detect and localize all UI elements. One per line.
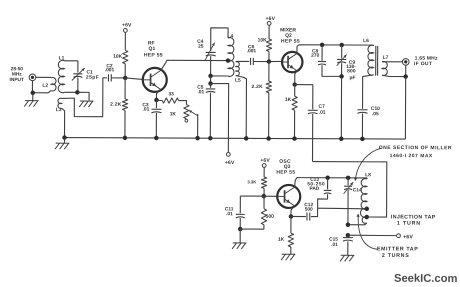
wire C11 node ground stub bbox=[239, 229, 241, 243]
coil L5 bbox=[236, 62, 240, 76]
label 33 bbox=[168, 91, 174, 97]
wire L1 top to C1 bbox=[65, 60, 78, 62]
wire ground bus bbox=[65, 138, 406, 139]
label C14 bbox=[353, 187, 362, 193]
node +6V tank junction bbox=[346, 233, 351, 238]
svg-text:2 TURNS: 2 TURNS bbox=[382, 253, 410, 259]
svg-text:L5: L5 bbox=[235, 78, 241, 84]
power +6V terminal (mixer) bbox=[266, 16, 276, 25]
wire +6V node to C5 bbox=[210, 84, 212, 88]
wire emitter to C12 bbox=[291, 215, 306, 217]
leader arc to emitter tap bbox=[356, 214, 377, 250]
wire C11 top lead bbox=[239, 196, 241, 213]
wire C7 top lead bbox=[312, 85, 314, 110]
wire pot wiper to ground bus bbox=[197, 114, 199, 138]
svg-text:.01: .01 bbox=[319, 110, 326, 116]
label 10K (mixer) bbox=[258, 38, 267, 44]
svg-text:+6V: +6V bbox=[225, 160, 235, 166]
svg-text:HEP 55: HEP 55 bbox=[144, 52, 163, 58]
wire C3 to ground bus bbox=[155, 113, 157, 138]
wire +6V to 10K (mixer) bbox=[268, 25, 270, 38]
wire IF return down to ground bus bbox=[404, 77, 406, 139]
svg-text:HEP 55: HEP 55 bbox=[276, 170, 295, 176]
label 1K (mixer) bbox=[285, 97, 292, 103]
wire Q2 emitter down bbox=[295, 70, 297, 84]
wire base node to 500 bbox=[263, 196, 265, 209]
capacitor C2 .001 bbox=[108, 74, 111, 81]
wire jack down to ground node bbox=[31, 81, 33, 93]
wire 2.2K to ground bus (mixer) bbox=[268, 93, 270, 139]
IF output jack bbox=[402, 59, 409, 66]
svg-text:IF OUT: IF OUT bbox=[414, 61, 432, 67]
label 1K gain pot bbox=[170, 111, 177, 117]
capacitor C3 .01 bbox=[151, 109, 161, 113]
label L1 bbox=[59, 55, 65, 61]
wire bus ground stub bbox=[63, 138, 65, 143]
wire Q1 emitter down bbox=[156, 89, 160, 100]
transistor Q2 bbox=[282, 52, 302, 72]
label C8 bbox=[311, 49, 319, 59]
wire L5 top to C6 bbox=[236, 60, 250, 63]
resistor 1K (mixer emitter) bbox=[292, 96, 297, 110]
wire +6V tank line bbox=[348, 234, 396, 236]
svg-text:2.2K: 2.2K bbox=[110, 102, 122, 108]
coil L7 bbox=[382, 61, 387, 75]
wire C4 bottom lead bbox=[210, 56, 212, 76]
wire base node to C11 corner bbox=[240, 195, 263, 197]
node bus pot bbox=[195, 136, 200, 141]
svg-text:.01: .01 bbox=[331, 242, 338, 248]
capacitor C5 .01 bbox=[206, 89, 216, 93]
svg-text:1 TURN: 1 TURN bbox=[397, 221, 421, 227]
svg-text:L8: L8 bbox=[365, 172, 371, 178]
node L8 injection tap bbox=[365, 215, 370, 220]
svg-text:800: 800 bbox=[347, 68, 356, 74]
wire C11 node to 500 bbox=[240, 228, 264, 230]
wire L3 top lead loop to C2 bbox=[62, 78, 107, 117]
wire tank node to +6V node bbox=[210, 76, 212, 84]
ground osc-emitter bbox=[281, 254, 295, 260]
coil L2 bbox=[51, 77, 56, 90]
svg-text:270: 270 bbox=[311, 53, 319, 59]
node: 28-50 MHz input label bbox=[10, 66, 25, 83]
wire base node to Q2 bbox=[269, 60, 282, 62]
svg-text:Q1: Q1 bbox=[149, 46, 156, 52]
coil L8 (tapped) bbox=[360, 179, 367, 224]
wire 33 to pot top bbox=[179, 101, 187, 105]
svg-text:MHz: MHz bbox=[12, 71, 22, 77]
label L5 bbox=[235, 78, 241, 84]
label C7 bbox=[319, 104, 326, 116]
wire Q2 collector to L6 bbox=[304, 44, 373, 46]
node Q3 emitter junction bbox=[289, 214, 294, 219]
wire L8 top corner bbox=[366, 178, 368, 179]
capacitor C1 25pF (variable) bbox=[72, 68, 85, 81]
svg-text:33: 33 bbox=[168, 91, 174, 97]
wire 10K to base node bbox=[124, 64, 126, 78]
wire jack to L2 bbox=[36, 76, 51, 78]
node C9 top junction bbox=[339, 43, 344, 48]
node L8 bottom junction bbox=[346, 222, 351, 227]
wire C14 bottom lead bbox=[347, 190, 349, 225]
node Q2 emitter junction bbox=[292, 82, 297, 87]
label C13 50-250 PAD bbox=[307, 177, 325, 192]
label C2 bbox=[105, 63, 115, 73]
coil L1 bbox=[58, 60, 64, 92]
ground L1 tank bbox=[79, 101, 93, 107]
resistor 1K (osc emitter) bbox=[288, 233, 293, 247]
label L8 bbox=[365, 172, 371, 178]
wire Q2 collector riser bbox=[297, 45, 304, 54]
wire C15 ground stub bbox=[347, 241, 349, 255]
capacitor C12 500 bbox=[307, 213, 310, 221]
capacitor C7 .01 (injection coupling) bbox=[308, 110, 318, 114]
node junction below jack bbox=[31, 91, 36, 96]
svg-text:+6V: +6V bbox=[260, 158, 270, 164]
wire C5 to ground bus bbox=[209, 93, 211, 139]
node C8 top junction bbox=[320, 43, 325, 48]
label C12 bbox=[304, 202, 313, 213]
svg-text:SeekIC.com: SeekIC.com bbox=[394, 273, 458, 285]
transformer core L6/L7 bbox=[376, 46, 378, 76]
wire emitter to 1K (mixer) bbox=[294, 85, 296, 97]
wire C9 bottom lead bbox=[341, 63, 343, 76]
wire Q1 collector riser bbox=[161, 60, 171, 70]
svg-text:.01: .01 bbox=[226, 211, 233, 217]
svg-text:10K: 10K bbox=[258, 38, 267, 44]
node C13 top junction bbox=[325, 175, 330, 180]
node C11 bottom junction bbox=[238, 227, 243, 232]
svg-text:.001: .001 bbox=[105, 67, 115, 73]
wire L7 top to IF jack bbox=[382, 61, 402, 63]
node +6V feed junction bbox=[208, 81, 213, 86]
label 10K (RF) bbox=[113, 54, 122, 60]
label 1K (osc) bbox=[278, 237, 285, 243]
capacitor C4 25 (variable) bbox=[205, 42, 216, 60]
wire emitter tap line to L8 bbox=[318, 207, 367, 210]
wire C13 top lead bbox=[327, 178, 329, 190]
wire stub to input ground bbox=[32, 93, 34, 101]
wire tank node to ground hook bbox=[77, 92, 89, 100]
wire Q3 collector to tank bbox=[302, 177, 367, 179]
svg-text:INPUT: INPUT bbox=[10, 77, 24, 83]
node Q2 base junction bbox=[267, 59, 272, 64]
wire C14 top lead bbox=[347, 178, 349, 185]
label 2.2K (mixer) bbox=[252, 84, 264, 90]
capacitor C8 270 bbox=[318, 61, 326, 65]
node Q1 emitter junction bbox=[154, 98, 159, 103]
svg-text:pF: pF bbox=[349, 75, 355, 81]
svg-text:+6V: +6V bbox=[122, 22, 132, 28]
capacitor C6 .001 bbox=[251, 58, 254, 65]
label C11 bbox=[225, 206, 234, 217]
svg-text:1460-I 207 MAX: 1460-I 207 MAX bbox=[390, 153, 433, 159]
potentiometer 1K (gain) bbox=[184, 105, 198, 123]
svg-text:C15: C15 bbox=[329, 237, 338, 243]
node L1/C1 junction bbox=[75, 90, 80, 95]
svg-text:C14: C14 bbox=[353, 187, 362, 193]
svg-text:+6V: +6V bbox=[266, 16, 276, 22]
wire C2 to base node bbox=[111, 77, 125, 79]
wire C1 top lead bbox=[77, 61, 79, 73]
svg-text:.01: .01 bbox=[143, 107, 150, 113]
label C9 value bbox=[346, 60, 356, 81]
resistor 10K (RF base) bbox=[123, 50, 128, 63]
node bus C3 bbox=[154, 136, 159, 141]
svg-text:C10: C10 bbox=[371, 106, 380, 112]
capacitor C10 .05 bbox=[358, 110, 368, 114]
resistor 500 (osc base) bbox=[261, 209, 266, 225]
wire L6 top corner bbox=[373, 44, 375, 46]
wire C10 to ground bus bbox=[361, 113, 363, 138]
node bus C10 bbox=[360, 137, 365, 142]
svg-text:.001: .001 bbox=[247, 48, 257, 54]
label C5 bbox=[197, 85, 204, 96]
node C14 top junction bbox=[346, 176, 351, 181]
wire emitter to 33 bbox=[156, 99, 162, 101]
svg-text:C7: C7 bbox=[319, 104, 326, 110]
watermark SeekIC.com bbox=[394, 273, 458, 285]
label 3.3K bbox=[247, 179, 256, 184]
label 500 bbox=[266, 214, 274, 220]
node Q3 base junction bbox=[262, 194, 267, 199]
label MIXER Q2 HEP 55 bbox=[280, 27, 300, 44]
wire 1K ground stub (osc) bbox=[290, 247, 292, 254]
wire tank bottom to ground bus bbox=[340, 76, 342, 138]
ground osc-tank bbox=[340, 255, 354, 261]
node L7 return junction bbox=[403, 74, 408, 79]
label C1 bbox=[86, 70, 99, 81]
wire injection line right side bbox=[312, 162, 387, 218]
leader arc to C14 bbox=[354, 148, 381, 181]
wire tank top loop bbox=[211, 28, 228, 51]
power +6V terminal (tank feed) bbox=[225, 152, 235, 166]
capacitor C13 50-250 PAD bbox=[324, 190, 332, 194]
transistor Q1 bbox=[143, 68, 167, 92]
wire C8 bottom to C9 node bbox=[322, 65, 342, 76]
node bus C5 bbox=[208, 136, 213, 141]
label L3 bbox=[56, 107, 62, 113]
svg-text:25: 25 bbox=[198, 44, 204, 50]
svg-text:28-50: 28-50 bbox=[11, 66, 24, 72]
wire 500 to C11 node bbox=[263, 225, 265, 229]
svg-text:25pF: 25pF bbox=[86, 75, 99, 81]
wire +6V to 10K bbox=[124, 33, 126, 51]
wire Q1 collector to L4 tap bbox=[170, 59, 228, 61]
svg-text:1K: 1K bbox=[278, 237, 285, 243]
ground bus-left bbox=[55, 143, 69, 149]
power +6V terminal (RF) bbox=[122, 22, 132, 32]
wire L7 bottom to return bbox=[382, 75, 406, 76]
wire emitter to C7 branch bbox=[295, 84, 313, 86]
wire base node to 2.2K (mixer) bbox=[268, 62, 270, 82]
wire 2.2K to ground bus bbox=[124, 110, 126, 137]
ground osc-base bbox=[232, 243, 246, 249]
svg-text:2.2K: 2.2K bbox=[252, 84, 264, 90]
svg-text:3.3K: 3.3K bbox=[247, 179, 256, 184]
coil L6 bbox=[368, 45, 374, 75]
svg-text:L2: L2 bbox=[42, 83, 48, 89]
label L7 bbox=[383, 55, 389, 61]
wire +6V node to terminal bbox=[210, 84, 228, 153]
label C15 bbox=[329, 237, 338, 248]
wire IF jack shield down bbox=[405, 65, 407, 76]
wire C12 to emitter-tap riser bbox=[311, 208, 318, 216]
node bus 1K mixer bbox=[292, 136, 297, 141]
node bus L5 bbox=[244, 136, 249, 141]
svg-text:1K: 1K bbox=[170, 111, 177, 117]
note INJECTION TAP 1 TURN bbox=[391, 214, 436, 226]
wire C1 bottom to tank node bbox=[77, 78, 79, 93]
wire L3 bottom to ground bus bbox=[62, 108, 65, 137]
svg-text:.01: .01 bbox=[197, 89, 204, 95]
wire emitter to 1K (osc) bbox=[290, 216, 292, 233]
label L6 bbox=[363, 38, 369, 44]
node tank bottom junction bbox=[208, 74, 213, 79]
wire L2 bottom to jack ground node bbox=[33, 91, 51, 93]
resistor 3.3K (osc base) bbox=[261, 177, 266, 188]
wire C6 to Q2 base node bbox=[254, 61, 269, 63]
wire 3.3K to base node (osc) bbox=[263, 188, 265, 196]
wire L5 bottom to ground bus bbox=[236, 76, 247, 139]
wire L1 bottom to tank node bbox=[64, 91, 77, 93]
capacitor C11 .01 bbox=[236, 214, 245, 218]
svg-text:HEP 55: HEP 55 bbox=[281, 39, 300, 45]
node bus 2.2K mixer bbox=[266, 136, 271, 141]
resistor 10K (mixer base) bbox=[266, 39, 271, 51]
svg-text:L7: L7 bbox=[383, 55, 389, 61]
wire C9 top lead bbox=[341, 45, 343, 58]
coil L4 (tapped) bbox=[228, 38, 234, 77]
node bus mixer tank bbox=[339, 137, 344, 142]
svg-text:500: 500 bbox=[305, 207, 313, 213]
label 1.65 MHz IF OUT bbox=[414, 56, 438, 68]
wire C13 bottom to emitter-tap line bbox=[318, 194, 328, 208]
svg-text:L6: L6 bbox=[363, 38, 369, 44]
capacitor C14 (variable) bbox=[344, 182, 354, 194]
node bus 2.2K RF bbox=[123, 136, 128, 141]
wire base node to Q3 bbox=[264, 195, 277, 197]
note ONE SECTION OF MILLER bbox=[379, 145, 452, 159]
wire 10K to base node (mixer) bbox=[268, 51, 270, 61]
svg-text:+6V: +6V bbox=[403, 234, 413, 240]
label C3 bbox=[142, 102, 149, 112]
node C8/C9 bottom junction bbox=[339, 74, 344, 79]
wire L4 bottom to tank node bbox=[211, 75, 228, 77]
label C10 bbox=[371, 106, 380, 117]
capacitor C15 .01 bbox=[343, 238, 353, 242]
resistor 2.2K (mixer) bbox=[266, 81, 271, 93]
node L8 emitter tap bbox=[365, 207, 370, 212]
coil L3 bbox=[58, 98, 62, 108]
resistor 2.2K (RF base) bbox=[122, 99, 127, 110]
capacitor C9 130-800pF (variable) bbox=[337, 54, 347, 65]
label C6 bbox=[247, 44, 257, 54]
label L4 bbox=[227, 34, 233, 40]
wire C8 top lead bbox=[321, 45, 323, 61]
wire base node to Q1 bbox=[125, 78, 143, 79]
svg-text:ONE SECTION OF MILLER: ONE SECTION OF MILLER bbox=[379, 145, 452, 151]
wire 1K to ground bus (mixer) bbox=[294, 110, 296, 138]
label L2 bbox=[42, 83, 48, 89]
power +6V terminal (tank) bbox=[397, 234, 414, 241]
svg-text:PAD: PAD bbox=[309, 186, 319, 192]
transistor Q3 bbox=[277, 185, 300, 208]
svg-text:.05: .05 bbox=[372, 111, 379, 117]
wire C15 top lead bbox=[347, 235, 349, 236]
node Q1 base junction bbox=[123, 76, 128, 81]
svg-text:10K: 10K bbox=[113, 54, 122, 60]
wire emitter to C3 bbox=[155, 100, 157, 108]
resistor 33 (horizontal) bbox=[162, 98, 179, 103]
note EMITTER TAP 2 TURNS bbox=[377, 246, 419, 259]
node bus L3 bbox=[62, 135, 67, 140]
label 2.2K (RF) bbox=[110, 102, 122, 108]
svg-text:1K: 1K bbox=[285, 97, 292, 103]
wire +6V to 3.3K bbox=[263, 168, 265, 177]
wire Q3 emitter down bbox=[291, 206, 295, 217]
svg-text:500: 500 bbox=[266, 214, 274, 220]
ground input bbox=[24, 101, 38, 107]
svg-text:EMITTER TAP: EMITTER TAP bbox=[377, 246, 419, 252]
label RF Q1 HEP 55 bbox=[144, 40, 163, 58]
wire C11 bottom lead bbox=[239, 218, 241, 229]
wire Q3 collector riser bbox=[295, 178, 302, 188]
wire L8 bottom to C15 line bbox=[348, 223, 367, 225]
power +6V terminal (osc) bbox=[260, 158, 270, 168]
node L4 collector tap bbox=[226, 58, 231, 63]
wire base node to 2.2K bbox=[124, 78, 126, 99]
label OSC Q3 HEP 55 bbox=[276, 159, 295, 176]
wire C7 bottom crossing bus to injection line bbox=[312, 114, 314, 162]
input coax jack J1 bbox=[29, 74, 36, 81]
wire L6 bottom to C10 bbox=[363, 75, 374, 109]
label C4 bbox=[197, 39, 204, 50]
